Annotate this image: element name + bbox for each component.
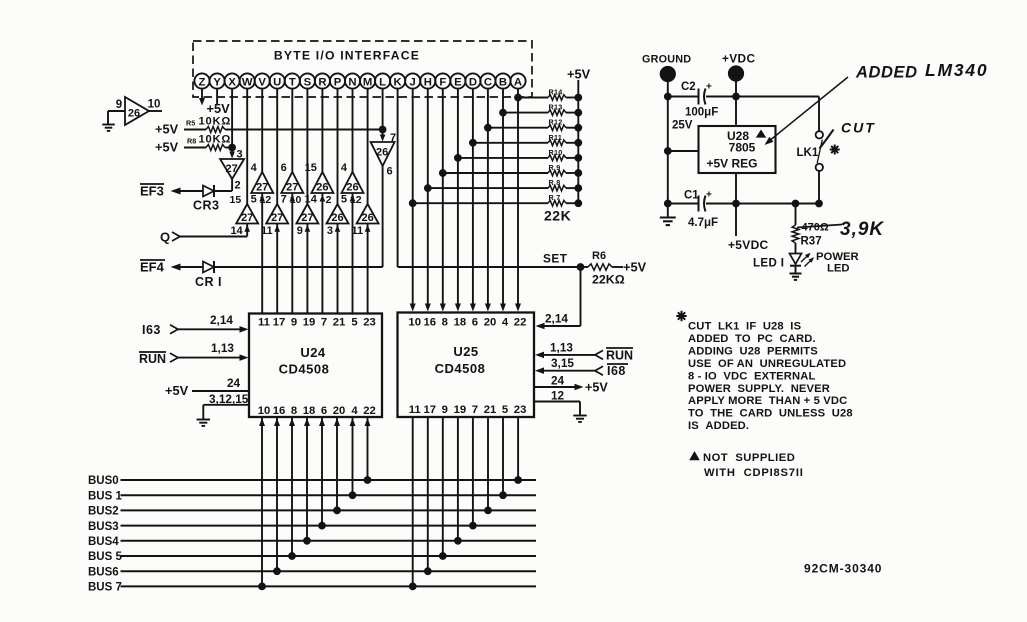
connector pin F [435, 73, 450, 88]
link LK1 top contact [816, 131, 823, 138]
pin 1,13 label (U25) [550, 341, 573, 355]
U24 bottom pin 10 label [258, 405, 271, 417]
arrow into inverter base (W) [244, 225, 250, 232]
svg-text:3,12,15: 3,12,15 [209, 392, 249, 406]
svg-text:2: 2 [235, 180, 241, 192]
svg-text:27: 27 [241, 212, 253, 224]
U24 bottom pin 6 label [321, 405, 327, 417]
wire BUS1 [121, 494, 537, 496]
label R 8 [549, 178, 561, 187]
svg-text:T: T [289, 76, 296, 88]
svg-text:4: 4 [341, 162, 348, 174]
wire J to resistor R7 [413, 202, 548, 204]
svg-text:WITH CDPI8S7II: WITH CDPI8S7II [704, 467, 804, 479]
node RUN label [139, 352, 166, 366]
pin 10 label (S) [290, 194, 302, 206]
arrow into inverter base (T) [290, 195, 296, 202]
inverter 26 on line R (pins 15/14) [311, 172, 333, 194]
label R14 [549, 88, 563, 97]
wire R9 to +5V rail [566, 172, 578, 174]
wire BUS0 [121, 479, 537, 481]
svg-text:BUS0: BUS0 [88, 475, 119, 487]
svg-text:CR I: CR I [195, 275, 222, 289]
wire pin U to inverter [276, 89, 278, 204]
svg-text:I63: I63 [142, 323, 161, 337]
svg-text:GROUND: GROUND [642, 54, 691, 66]
U25 part number [435, 361, 486, 376]
arrow into inverter base (U) [274, 225, 280, 232]
svg-text:L: L [379, 76, 386, 88]
svg-text:26: 26 [346, 182, 358, 194]
svg-text:11: 11 [409, 404, 421, 416]
note asterisk [676, 311, 686, 321]
svg-text:20: 20 [484, 317, 497, 329]
wire R11 to +5V rail [566, 142, 578, 144]
pin 11 label (U) [261, 225, 273, 237]
inverter 27 on line V (pins 4/5) [251, 172, 273, 194]
pin 1,13 label (U24) [211, 341, 234, 355]
pin 9 label (S) [297, 225, 303, 237]
svg-text:10KΩ: 10KΩ [199, 116, 232, 128]
wire line R to U24 [321, 193, 323, 314]
wire pin W to inverter [246, 89, 248, 204]
node BUS5 label [88, 551, 122, 563]
ground (U25) [573, 416, 587, 422]
wire gnd rail to U28 [668, 150, 699, 152]
svg-text:9: 9 [442, 404, 448, 416]
node rail junction R7 [575, 200, 582, 207]
svg-text:21: 21 [333, 317, 346, 329]
label R10 [549, 148, 563, 157]
wire U24 pin 22 to BUS0 [365, 417, 371, 480]
U24 top pin 11 label [258, 317, 270, 329]
node R8/line X junction [229, 144, 236, 151]
svg-text:RUN: RUN [139, 352, 166, 366]
wire node SET [398, 266, 581, 268]
resistor R12 22K [548, 125, 566, 131]
svg-text:R12: R12 [549, 118, 563, 127]
connector pin N [345, 73, 360, 88]
svg-text:POWER SUPPLY. NEVER: POWER SUPPLY. NEVER [688, 383, 830, 395]
C2 label [681, 81, 696, 93]
svg-text:24: 24 [551, 374, 565, 388]
junction U24 10/BUS7 [259, 583, 266, 590]
+5V label (R6) [623, 260, 647, 275]
svg-text:19: 19 [303, 317, 316, 329]
resistor R6 22KΩ [588, 264, 612, 270]
svg-text:16: 16 [273, 405, 286, 417]
svg-text:TO THE CARD UNLESS U28: TO THE CARD UNLESS U28 [688, 408, 853, 420]
wire SET to U25 pins 2,14 [543, 267, 581, 326]
node junction E/R10 [455, 155, 462, 162]
label R13 [549, 103, 563, 112]
node junction J/R7 [409, 200, 416, 207]
drawing number 92CM-30340 [804, 562, 882, 576]
svg-text:27: 27 [271, 212, 283, 224]
connector pin E [450, 73, 465, 88]
wire pin S to inverter [306, 89, 308, 204]
node EF3 label [140, 184, 164, 199]
arrow into inverter 27 pin 3 [229, 149, 235, 159]
svg-text:B: B [499, 76, 507, 88]
arrow into inverter base (S) [305, 225, 311, 232]
svg-text:P: P [334, 76, 342, 88]
svg-text:+5V: +5V [155, 122, 179, 137]
U28 part 7805 [729, 141, 756, 155]
wire R37 to LED1 [795, 243, 797, 254]
svg-text:+5V: +5V [207, 101, 231, 116]
inverter 26 (pins 7,6) [371, 142, 395, 166]
wire U24 pin 8 to BUS5 [289, 417, 295, 556]
label 100µF [685, 107, 718, 119]
regulator U28 box [699, 126, 776, 173]
wire line P to U24 [337, 224, 339, 314]
svg-text:ADDING U28 PERMITS: ADDING U28 PERMITS [688, 345, 818, 357]
IC U24 CD4508 box [249, 314, 382, 418]
wire CR1 to EF4 arrow [180, 266, 203, 268]
svg-text:27: 27 [286, 182, 298, 194]
+VDC label [722, 52, 755, 66]
wire pin C down to U25 [487, 89, 489, 304]
svg-text:26: 26 [376, 147, 388, 159]
+5V label (U24) [165, 383, 189, 398]
svg-text:20: 20 [333, 405, 346, 417]
svg-text:+: + [706, 190, 712, 201]
wire A to resistor R14 [518, 97, 548, 99]
wire BUS6 [121, 570, 537, 572]
label BYTE I/O INTERFACE [274, 49, 420, 63]
junction U25 5/BUS1 [500, 492, 507, 499]
svg-text:ADDED: ADDED [855, 64, 918, 82]
pin 14 label (W) [230, 225, 243, 237]
svg-text:R 8: R 8 [549, 178, 561, 187]
svg-text:2: 2 [326, 194, 332, 206]
wire BUS7 [121, 585, 537, 587]
wire pin J down to U25 [412, 89, 414, 304]
note text CUT LK1 [688, 321, 853, 433]
label 22KΩ (R6) [592, 273, 625, 287]
U24 bottom pin 16 label [273, 405, 286, 417]
junction U25 9/BUS5 [439, 553, 446, 560]
svg-text:C: C [484, 76, 492, 88]
connector pin B [495, 73, 510, 88]
POWER LED label [816, 251, 859, 275]
resistor R7 22K [548, 200, 566, 206]
wire BUS5 [121, 555, 537, 557]
wire pin X down [231, 89, 233, 148]
svg-text:BUS6: BUS6 [88, 566, 119, 578]
label 470Ω (struck out) [797, 222, 842, 234]
svg-text:USE OF AN UNREGULATED: USE OF AN UNREGULATED [688, 358, 846, 370]
svg-text:+5V: +5V [155, 139, 179, 154]
C2 plus sign [706, 82, 712, 93]
resistor R8 10KΩ [206, 145, 225, 151]
svg-text:2,14: 2,14 [210, 313, 233, 327]
svg-text:R: R [318, 76, 326, 88]
svg-text:27: 27 [225, 163, 237, 175]
U24 bottom pin 8 label [291, 405, 297, 417]
U24 bottom pin 22 label [363, 405, 376, 417]
+5V arrow (pin Z) [199, 98, 205, 106]
svg-text:R 9: R 9 [549, 163, 561, 172]
connector pin S [300, 73, 315, 88]
label 10KΩ (R5) [199, 116, 232, 128]
label 4.7µF [688, 217, 718, 229]
svg-text:R8: R8 [187, 137, 196, 146]
pin 10 label [148, 99, 161, 111]
svg-text:I68: I68 [607, 364, 626, 378]
wire pin A down to U25 [517, 89, 519, 304]
connector pin R [315, 73, 330, 88]
U25 top pin 20 label [484, 317, 497, 329]
wire U25 pin 7 to BUS3 [472, 417, 474, 526]
wire C2 row left [668, 96, 699, 98]
+5V label (U25) [585, 381, 608, 395]
junction U24 16/BUS6 [274, 568, 281, 575]
svg-text:26: 26 [128, 108, 140, 120]
wire node I68 to U25 (pins 3,15) [535, 367, 596, 374]
IC U25 CD4508 box [398, 313, 535, 418]
svg-text:4: 4 [351, 405, 358, 417]
svg-text:5: 5 [502, 404, 508, 416]
pin 5 label (V) [251, 194, 257, 206]
svg-text:IS ADDED.: IS ADDED. [688, 420, 749, 432]
junction U25 19/BUS4 [455, 537, 462, 544]
svg-text:27: 27 [301, 212, 313, 224]
wire CR3 to EF3 arrow [180, 190, 203, 192]
node C2 row junction (+VDC) [733, 93, 740, 100]
wire R5 to node L [225, 129, 383, 131]
svg-text:15: 15 [230, 194, 242, 206]
U25 bottom pin 17 label [424, 404, 437, 416]
svg-text:10: 10 [258, 405, 271, 417]
svg-text:BUS3: BUS3 [88, 521, 119, 533]
U24 bottom pin 20 label [333, 405, 346, 417]
wire line T to U24 [291, 193, 293, 314]
node C2 row junction (gnd rail) [664, 93, 671, 100]
svg-text:3,15: 3,15 [551, 356, 574, 370]
U25 bottom pin 11 label [409, 404, 421, 416]
U25 top pin 4 label [502, 317, 509, 329]
GROUND label [642, 54, 691, 66]
wire +5V to R5 [184, 129, 206, 131]
svg-text:U24: U24 [300, 345, 326, 360]
svg-text:3: 3 [327, 225, 333, 237]
note marker triangle [689, 451, 700, 460]
pin 7 label (T) [281, 194, 287, 206]
wire H to resistor R8 [428, 187, 548, 189]
svg-text:23: 23 [363, 317, 376, 329]
pin 15 label (R) [305, 162, 317, 174]
label R 9 [549, 163, 561, 172]
svg-text:V: V [258, 76, 266, 88]
RUN open arrow [170, 353, 178, 362]
svg-text:5: 5 [251, 194, 257, 206]
node Q label [160, 230, 170, 245]
svg-text:U: U [273, 76, 281, 88]
svg-text:26: 26 [361, 212, 373, 224]
svg-text:LED: LED [827, 263, 850, 275]
svg-text:S: S [304, 76, 312, 88]
svg-text:R11: R11 [549, 133, 563, 142]
inverter 27 on line U (pins 12/11) [266, 204, 288, 224]
U25 bottom pin 5 label [502, 404, 508, 416]
wire R10 to +5V rail [566, 157, 578, 159]
node C1 row junction (U28 out) [733, 200, 740, 207]
junction U24 18/BUS4 [304, 537, 311, 544]
LK1 label [797, 147, 819, 159]
diode CR3 [203, 185, 214, 197]
pin 9 label [116, 99, 122, 111]
arrow into U25 (line J) [410, 304, 416, 312]
svg-text:D: D [469, 76, 477, 88]
svg-text:BUS 7: BUS 7 [88, 582, 122, 594]
wire inverter input pin 9 [108, 111, 125, 125]
svg-text:X: X [228, 76, 236, 88]
connector pin C [480, 73, 495, 88]
connector pin Z [194, 73, 209, 88]
svg-text:LED I: LED I [753, 258, 784, 270]
wire pin L down [382, 89, 384, 130]
node U28 gnd junction [664, 148, 671, 155]
LED1 emission arrows [801, 253, 814, 267]
inverter 27 on line T (pins 6/7) [281, 172, 303, 194]
svg-text:9: 9 [297, 225, 303, 237]
inverter 26 on line M (pins 12/11) [357, 204, 379, 224]
node BUS7 label [88, 582, 122, 594]
resistor R11 22K [548, 140, 566, 146]
svg-text:BUS 5: BUS 5 [88, 551, 122, 563]
label R11 [549, 133, 563, 142]
svg-text:CD4508: CD4508 [435, 361, 486, 376]
wire +5VDC stub [735, 204, 737, 237]
U25 top pin 22 label [514, 317, 527, 329]
node SET junction [577, 264, 584, 271]
U25 top pin 10 label [408, 317, 421, 329]
svg-text:18: 18 [454, 317, 467, 329]
svg-text:Z: Z [199, 76, 206, 88]
svg-text:F: F [439, 76, 446, 88]
U24 top pin 21 label [333, 317, 346, 329]
resistor R37 [792, 225, 799, 243]
label CR1 [195, 275, 222, 289]
node junction H/R8 [424, 185, 431, 192]
svg-text:A: A [514, 76, 522, 88]
wire pin B down to U25 [502, 89, 504, 304]
node I63 label [142, 323, 161, 337]
junction U25 11/BUS7 [409, 583, 416, 590]
pin 12 label (U25) [551, 389, 565, 403]
wire +5V rail (ladder) [577, 80, 579, 203]
wire U25 pin 11 to BUS7 [412, 417, 414, 586]
wire inverter 26 out to EF4 [215, 166, 383, 267]
svg-text:BUS 1: BUS 1 [88, 490, 122, 502]
diode CR1 [203, 261, 214, 273]
svg-text:92CM-30340: 92CM-30340 [804, 562, 882, 576]
connector pin W [240, 73, 255, 88]
wire U24 pin 6 to BUS3 [319, 417, 325, 526]
label R37 [801, 236, 822, 248]
svg-text:12: 12 [551, 389, 565, 403]
wire U24 pin 18 to BUS4 [304, 417, 310, 541]
wire F to resistor R9 [443, 172, 548, 174]
wire pin F down to U25 [442, 89, 444, 304]
ground (LED1) [790, 274, 802, 280]
pin 3 label (P) [327, 225, 333, 237]
svg-text:LK1: LK1 [797, 147, 819, 159]
svg-text:6: 6 [281, 162, 287, 174]
svg-text:+5V: +5V [585, 381, 608, 395]
svg-text:6: 6 [387, 166, 393, 178]
capacitor C1 4.7µF [699, 196, 706, 212]
pin 15 label (W) [230, 194, 242, 206]
svg-text:22KΩ: 22KΩ [592, 273, 625, 287]
arrow into inverter base (R) [320, 195, 326, 202]
pin 6 label [387, 166, 393, 178]
pin 2 label [235, 180, 241, 192]
+5V label (pin Z) [207, 101, 231, 116]
wire ground rail [667, 82, 669, 218]
connector pin M [360, 73, 375, 88]
wire pin P to inverter [337, 89, 339, 204]
wire pin M to inverter [367, 89, 369, 204]
pin 12 label (U) [260, 194, 272, 206]
wire BUS2 [121, 509, 537, 511]
svg-text:27: 27 [256, 182, 268, 194]
svg-text:18: 18 [303, 405, 316, 417]
wire pin E down to U25 [457, 89, 459, 304]
connector pin H [420, 73, 435, 88]
resistor R14 22K [548, 95, 566, 101]
inverter 26 on line P (pins 2/3) [327, 204, 349, 224]
svg-text:CR3: CR3 [193, 199, 220, 213]
svg-text:BYTE I/O INTERFACE: BYTE I/O INTERFACE [274, 49, 420, 63]
U24 bottom pin 18 label [303, 405, 316, 417]
dashed box byte I/O interface [193, 41, 532, 97]
svg-text:14: 14 [230, 225, 243, 237]
wire BUS3 [121, 525, 537, 527]
I68 open arrow [595, 366, 603, 375]
connector pin P [330, 73, 345, 88]
U24 name [300, 345, 326, 360]
terminal +VDC [728, 66, 743, 81]
RUN open arrow (U25) [595, 350, 603, 359]
node R37 junction [792, 200, 799, 207]
svg-text:C2: C2 [681, 81, 696, 93]
svg-text:W: W [242, 76, 253, 88]
wire R8 to node X [225, 147, 232, 149]
svg-text:Q: Q [160, 230, 170, 245]
wire +5V to U24 pin 24 [192, 390, 249, 392]
connector pin D [465, 73, 480, 88]
wire R13 to +5V rail [566, 112, 578, 114]
svg-text:22: 22 [363, 405, 376, 417]
U24 top pin 9 label [291, 317, 297, 329]
svg-text:+: + [706, 82, 712, 93]
pin 3,12,15 label (U24) [209, 392, 249, 406]
svg-text:10: 10 [408, 317, 421, 329]
node junction A/R14 [515, 94, 522, 101]
pin 4 label (V) [251, 162, 258, 174]
svg-text:17: 17 [424, 404, 437, 416]
svg-text:22: 22 [514, 317, 527, 329]
arrow into inverter 26 pin 7 [380, 131, 386, 142]
C1 label [684, 190, 699, 202]
arrow into U25 (line E) [455, 304, 461, 312]
U25 top pin 6 label [472, 317, 478, 329]
wire LK1 to C1 row [818, 171, 820, 204]
svg-text:+5VDC: +5VDC [728, 238, 769, 252]
